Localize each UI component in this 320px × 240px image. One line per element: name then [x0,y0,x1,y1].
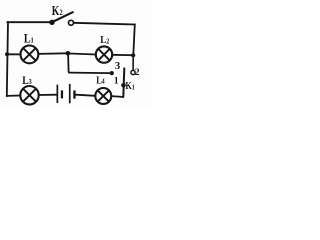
switch K1 blade (vertical, from tip down through pivot 1 to corner) [123,68,124,97]
svg-text:L2: L2 [100,34,110,46]
battery cells [57,84,76,103]
wire bottom left row: corner to L3 [7,95,21,97]
switch K2 throw contact (open circle) [69,20,74,25]
wire top left (corner to switch K2) [7,21,50,23]
contact 3 dot [110,71,114,75]
switch K2 blade [52,12,73,22]
switch K1 pivot dot (point 1) [121,83,126,88]
lamp L4 [95,88,111,104]
wire L4 to bottom-right corner [111,95,122,98]
battery long plate 1 [57,85,59,103]
svg-text:L3: L3 [22,74,32,87]
svg-text:L1: L1 [24,33,34,46]
svg-text:K1: K1 [125,81,134,92]
wire right vertical (top-right corner down to node) [133,24,135,55]
svg-text:3: 3 [115,61,120,72]
lamp L2 [96,46,112,62]
wire middle row: node A to L2 [70,54,96,55]
battery short plate 2 [73,90,75,98]
wire battery to L4 [76,95,96,96]
wire middle row: L2 to right node [112,54,131,56]
svg-text:2: 2 [135,67,140,78]
lamp L3 [20,86,38,104]
switch K2 pivot dot [49,20,54,25]
wire left vertical [7,22,8,96]
svg-text:L4: L4 [96,76,105,87]
battery long plate 2 [69,84,71,103]
wire drop from node A down and right to contact 3 [68,53,110,73]
wire middle row: left wire to lamp L1 [7,53,21,55]
svg-text:K2: K2 [52,3,63,18]
svg-text:1: 1 [114,76,119,86]
battery short plate 1 [61,90,63,98]
contact 2 (open circle) [131,70,135,74]
wire top right (switch K2 to top-right corner) [73,23,134,25]
node left junction dot [5,52,9,56]
lamp L1 [21,46,39,64]
node A junction dot [66,51,71,56]
wire middle row: L1 to node A [38,52,66,55]
node right junction dot [131,53,135,57]
wire L3 to battery [39,94,57,96]
wire stub node to contact 2 [132,55,134,70]
